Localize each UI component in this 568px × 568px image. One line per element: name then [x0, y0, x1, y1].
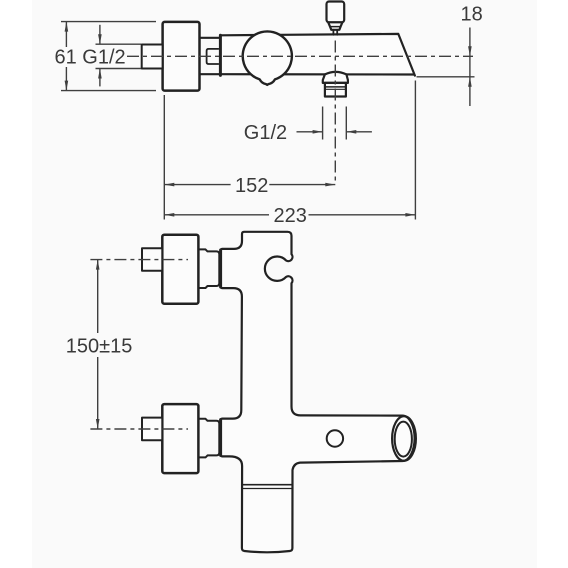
- lower stub: [142, 418, 162, 441]
- svg-text:61 G1/2: 61 G1/2: [55, 47, 126, 69]
- 150+-15 dim line: [97, 260, 99, 333]
- diverter knob: [327, 2, 345, 23]
- shower G1/2 ext lines: [322, 107, 324, 140]
- body spout outline: [222, 34, 415, 76]
- svg-text:152: 152: [235, 175, 268, 197]
- upper flange: [162, 235, 198, 304]
- lower flange: [162, 404, 198, 473]
- upper inlet neck: [198, 249, 219, 288]
- svg-text:G1/2: G1/2: [244, 122, 287, 144]
- flange: [163, 22, 200, 91]
- svg-text:150±15: 150±15: [66, 336, 133, 358]
- G1/2 extension lines: [96, 43, 142, 45]
- joint thick line: [219, 35, 222, 75]
- 18 arrows (outside): [468, 46, 472, 56]
- spout hole: [327, 430, 343, 446]
- main body outline: [221, 232, 415, 553]
- 223 arrows: [164, 213, 174, 217]
- lower inlet neck: [198, 419, 219, 458]
- labels top view: [55, 4, 483, 228]
- stub pipe: [142, 45, 163, 69]
- 61 dim line: [65, 22, 67, 47]
- shower outlet fitting: [323, 72, 348, 83]
- G1/2 dim shafts: [99, 25, 101, 44]
- 61 arrows: [65, 22, 69, 32]
- arrowheads: [65, 22, 472, 217]
- shower G1/2 dim shafts: [297, 131, 323, 133]
- 152 arrows: [164, 183, 174, 187]
- square on neck: [207, 49, 219, 64]
- outlet seam lines: [242, 484, 293, 486]
- neck lines: [200, 37, 220, 39]
- svg-text:223: 223: [274, 205, 307, 227]
- spout inner ellipse: [395, 422, 412, 457]
- 61 extension lines: [61, 21, 156, 23]
- knob circle with bottom nib: [243, 31, 292, 84]
- 223 dim line: [164, 214, 269, 216]
- svg-text:18: 18: [461, 4, 483, 26]
- 152 dim line: [164, 184, 230, 186]
- center lines bottom view: [90, 260, 188, 429]
- upper stub: [142, 248, 162, 271]
- spout outer ellipse: [392, 416, 416, 461]
- G1/2 arrows (outside): [98, 34, 102, 44]
- 18 dim: [469, 28, 471, 107]
- shower G1/2 arrows (outside): [313, 130, 323, 134]
- center lines top view: [127, 41, 473, 182]
- long extension lines: [163, 95, 165, 220]
